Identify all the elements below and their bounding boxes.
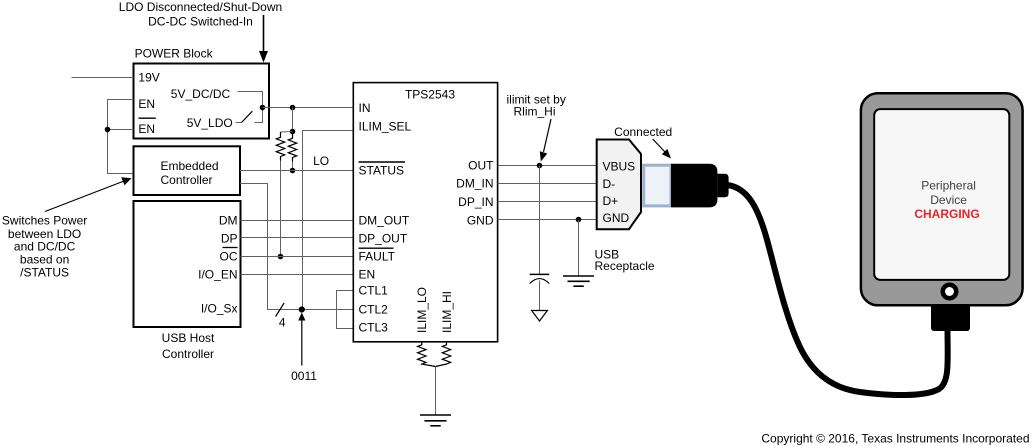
svg-text:CHARGING: CHARGING	[914, 207, 979, 221]
IC U1 TPS2543	[353, 83, 497, 342]
wire R2 to STATUS	[292, 162, 294, 171]
label USB Receptacle	[595, 248, 655, 273]
svg-text:EN: EN	[359, 267, 376, 281]
svg-text:OUT: OUT	[468, 159, 494, 173]
wire DP to DP_OUT	[241, 237, 354, 239]
svg-text:LDO Disconnected/Shut-Down: LDO Disconnected/Shut-Down	[119, 0, 282, 14]
pin OCbar label	[220, 248, 238, 264]
svg-text:Embedded: Embedded	[161, 159, 219, 173]
tablet screen	[874, 109, 1009, 280]
junction ENbar	[105, 127, 111, 133]
svg-text:IN: IN	[359, 101, 371, 115]
bus slash 4	[276, 303, 285, 317]
svg-text:DM: DM	[219, 213, 238, 227]
ground symbol (receptacle GND)	[563, 220, 594, 287]
block POWER	[134, 64, 270, 139]
resistor R4 ILIM_HI	[436, 342, 451, 367]
resistor R1 pull-up FAULT	[276, 132, 284, 161]
svg-text:Controller: Controller	[161, 173, 213, 187]
junction 5V/resistors	[290, 105, 296, 111]
svg-text:VBUS: VBUS	[603, 160, 636, 174]
svg-text:ILIM_HI: ILIM_HI	[440, 291, 454, 333]
USB plug body	[671, 164, 717, 208]
svg-text:POWER Block: POWER Block	[135, 47, 214, 61]
svg-text:DC-DC Switched-In: DC-DC Switched-In	[148, 14, 253, 28]
wire I/O_EN to EN	[241, 274, 354, 276]
resistor R3 ILIM_LO	[418, 342, 436, 367]
ground symbol (ILIM resistors)	[420, 415, 451, 426]
wire OCbar to FAULTbar	[241, 256, 354, 258]
svg-text:STATUS: STATUS	[359, 163, 405, 177]
svg-text:I/O_EN: I/O_EN	[198, 267, 237, 281]
svg-text:Receptacle: Receptacle	[595, 259, 655, 273]
switch S1 (LDO disconnect)	[236, 111, 263, 122]
wire OUT to VBUS	[498, 165, 597, 167]
USB plug mating face (blue)	[644, 165, 671, 206]
capacitor C1 (bulk)	[530, 166, 550, 311]
cable	[728, 185, 948, 395]
node 5V output dot	[260, 105, 266, 111]
svg-text:5V_LDO: 5V_LDO	[187, 116, 233, 130]
svg-text:DP: DP	[221, 231, 238, 245]
connector J1 USB receptacle	[597, 140, 641, 230]
svg-text:EN: EN	[138, 97, 155, 111]
svg-text:4: 4	[279, 316, 286, 330]
annotation ilimit set by Rlim_Hi	[507, 93, 566, 119]
svg-text:CTL3: CTL3	[359, 321, 389, 335]
annotation: LDO Disconnected/Shut-Down DC-DC Switched-In	[119, 0, 282, 28]
junction CTL2/ILIM_SEL/0011	[299, 306, 305, 312]
svg-text:OC: OC	[220, 250, 238, 264]
wire CTL bracket	[337, 291, 354, 329]
peripheral device tablet body	[861, 93, 1023, 305]
svg-text:5V_DC/DC: 5V_DC/DC	[171, 87, 231, 101]
block USB Host Controller	[134, 201, 241, 327]
svg-text:Connected: Connected	[614, 125, 672, 139]
junction R1/FAULT	[278, 254, 284, 260]
svg-text:DM_IN: DM_IN	[456, 177, 493, 191]
wire GND to receptacle GND	[498, 219, 597, 221]
pin ENbar label	[138, 118, 155, 136]
wire ILIM_SEL route	[303, 131, 354, 310]
svg-text:CTL1: CTL1	[359, 284, 389, 298]
svg-text:D+: D+	[603, 194, 619, 208]
label USB Host Controller	[162, 331, 215, 361]
junction OUT/cap	[537, 163, 543, 169]
wire jog to left resistor	[281, 131, 293, 134]
svg-text:Device: Device	[930, 193, 967, 207]
wire STATUS from EC	[240, 170, 353, 172]
svg-text:Rlim_Hi: Rlim_Hi	[514, 104, 556, 118]
svg-text:Copyright © 2016, Texas Instru: Copyright © 2016, Texas Instruments Inco…	[761, 432, 1029, 446]
wire DM to DM_OUT	[241, 220, 354, 222]
svg-text:DP_IN: DP_IN	[458, 195, 493, 209]
svg-text:Controller: Controller	[162, 347, 214, 361]
block Embedded Controller	[134, 146, 241, 195]
svg-text:/STATUS: /STATUS	[20, 265, 69, 279]
arrow annotation to plug	[653, 139, 671, 159]
pin FAULTbar label	[359, 248, 396, 263]
svg-text:DP_OUT: DP_OUT	[359, 231, 408, 245]
wire R1 to FAULT	[280, 161, 282, 257]
svg-text:FAULT: FAULT	[359, 250, 396, 264]
arrow annotation to Embedded Controller	[45, 177, 132, 211]
svg-text:ILIM_SEL: ILIM_SEL	[359, 120, 412, 134]
tablet dock connector	[931, 304, 970, 331]
svg-text:DM_OUT: DM_OUT	[359, 213, 410, 227]
svg-text:TPS2543: TPS2543	[405, 88, 455, 102]
wire 19V input	[72, 77, 134, 79]
wire to ground	[435, 367, 437, 415]
junction R2/STATUS	[290, 168, 296, 174]
wire EN loop from EC	[108, 100, 134, 174]
pin STATUSbar label	[359, 162, 406, 177]
arrow annotation to OUT node	[540, 119, 551, 162]
wire 5V to IN	[263, 107, 354, 109]
svg-text:GND: GND	[467, 214, 494, 228]
svg-text:I/O_Sx: I/O_Sx	[201, 302, 238, 316]
svg-text:CTL2: CTL2	[359, 303, 389, 317]
wire EC to CTL2	[240, 184, 353, 310]
arrow 0011 to CTL junction	[298, 313, 305, 366]
svg-text:19V: 19V	[138, 70, 159, 84]
wire DM_IN to D-	[498, 183, 597, 185]
wire ENbar stub	[108, 129, 134, 131]
junction GND	[576, 217, 582, 223]
junction resistor top	[290, 129, 296, 135]
wire DP_IN to D+	[498, 201, 597, 203]
svg-text:GND: GND	[603, 211, 630, 225]
svg-text:EN: EN	[138, 122, 155, 136]
svg-text:LO: LO	[313, 154, 329, 168]
annotation Switches Power between LDO and DC/DC based on /STATUS	[2, 214, 87, 280]
svg-text:USB Host: USB Host	[162, 331, 215, 345]
tablet home button	[941, 283, 959, 301]
svg-text:0011: 0011	[291, 369, 317, 383]
label Peripheral Device	[914, 179, 979, 221]
USB plug strain relief	[717, 174, 728, 198]
svg-text:ILIM_LO: ILIM_LO	[415, 287, 429, 333]
svg-text:Peripheral: Peripheral	[921, 179, 976, 193]
wire resistor feed	[292, 108, 294, 132]
wire 5V_DC/DC to switch node	[238, 92, 263, 123]
resistor R2 pull-up STATUS	[288, 132, 296, 162]
arrow annotation to POWER block	[259, 15, 268, 63]
svg-text:Switches Power: Switches Power	[2, 214, 87, 228]
arrow VBUS down (open triangle)	[532, 311, 548, 322]
svg-text:D-: D-	[603, 177, 616, 191]
